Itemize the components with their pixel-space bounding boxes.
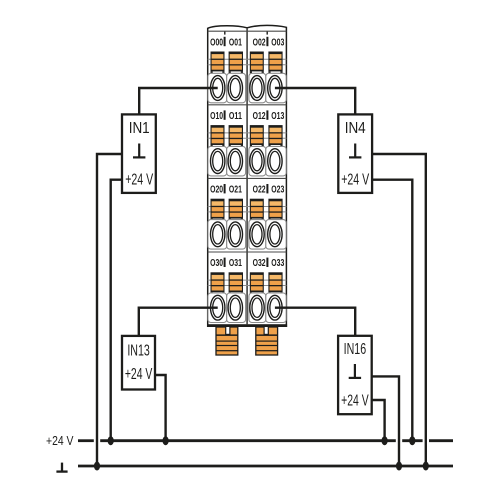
conductor entry cell O23 xyxy=(266,220,286,250)
svg-text:IN16: IN16 xyxy=(344,341,367,358)
spring clamp terminal O22 xyxy=(250,199,264,222)
module wavy top cap xyxy=(208,25,287,34)
wire IN4 signal to terminal O03 xyxy=(275,88,355,114)
wire IN1 ground to 0V bus xyxy=(97,154,122,466)
wire IN16 ground to 0V bus xyxy=(372,376,399,466)
+24V supply bus xyxy=(78,439,453,442)
label separator bar xyxy=(224,184,226,193)
ground symbol in IN16 xyxy=(349,364,361,378)
sensor box IN4 xyxy=(338,114,372,192)
junction dot on +24V bus xyxy=(382,436,388,445)
conductor entry cell O02 xyxy=(249,73,266,103)
spring clamp terminal O30 xyxy=(211,272,225,295)
spring clamp terminal O01 xyxy=(229,52,243,75)
svg-text:O20: O20 xyxy=(210,184,223,196)
svg-text:O32: O32 xyxy=(253,257,266,269)
conductor entry cell O21 xyxy=(227,220,246,250)
conductor entry cell O13 xyxy=(266,146,286,176)
sensor box IN13 xyxy=(122,336,155,390)
wire IN16 signal to terminal O33 xyxy=(275,308,355,336)
spring clamp terminal O20 xyxy=(211,199,225,222)
oval wire opening O10 xyxy=(211,149,225,174)
spring clamp terminal O00 xyxy=(211,52,225,75)
spring clamp terminal O32 xyxy=(250,272,264,295)
oval wire opening O02 xyxy=(250,76,264,101)
svg-text:O33: O33 xyxy=(271,257,284,269)
ground bus symbol xyxy=(56,463,67,472)
spring clamp terminal O10 xyxy=(211,125,225,148)
spring clamp terminal O02 xyxy=(250,52,264,75)
oval wire opening O12 xyxy=(250,149,264,174)
spring clamp terminal O23 xyxy=(268,199,282,222)
conductor entry cell O00 xyxy=(208,73,227,103)
conductor entry cell O10 xyxy=(208,146,227,176)
sensor box IN16 xyxy=(338,336,372,414)
svg-text:O22: O22 xyxy=(253,184,266,196)
oval wire opening O01 xyxy=(228,76,242,101)
conductor entry cell O30 xyxy=(208,293,227,323)
wire IN1 signal to terminal O00 xyxy=(139,88,218,114)
oval wire opening O32 xyxy=(250,295,264,320)
ground symbol in IN4 xyxy=(349,144,361,158)
svg-text:IN13: IN13 xyxy=(127,342,150,359)
spring clamp terminal O13 xyxy=(268,125,282,148)
wire IN13 +24V to 24V bus xyxy=(155,375,166,441)
svg-text:O21: O21 xyxy=(229,184,242,196)
oval wire opening O13 xyxy=(268,149,282,174)
row 3 horizontal guide lines xyxy=(208,207,287,212)
label separator bar xyxy=(266,110,268,119)
wire IN4 +24V to 24V bus xyxy=(372,180,412,441)
svg-text:+24 V: +24 V xyxy=(46,434,74,448)
spring clamp terminal O12 xyxy=(250,125,264,148)
label separator bar xyxy=(266,258,268,267)
oval wire opening O23 xyxy=(268,222,282,247)
oval wire opening O20 xyxy=(211,222,225,247)
conductor entry cell O32 xyxy=(249,293,266,323)
svg-text:O12: O12 xyxy=(253,110,266,122)
conductor entry cell O22 xyxy=(249,220,266,250)
svg-text:O01: O01 xyxy=(229,36,242,48)
junction dot on +24V bus xyxy=(409,436,415,445)
junction dot on 0V bus xyxy=(423,462,429,471)
svg-text:O03: O03 xyxy=(271,36,284,48)
row 1 horizontal guide lines xyxy=(208,59,287,64)
spring clamp terminal O31 xyxy=(229,272,243,295)
row 4 horizontal guide lines xyxy=(208,280,287,285)
conductor entry cell O01 xyxy=(227,73,246,103)
svg-text:O30: O30 xyxy=(210,257,223,269)
conductor entry cell O20 xyxy=(208,220,227,250)
conductor entry cell O12 xyxy=(249,146,266,176)
svg-text:IN1: IN1 xyxy=(129,120,150,137)
junction dot on 0V bus xyxy=(396,462,402,471)
spring clamp terminal O33 xyxy=(268,272,282,295)
label separator bar xyxy=(266,37,268,46)
svg-text:+24 V: +24 V xyxy=(125,366,153,383)
svg-text:+24 V: +24 V xyxy=(341,392,369,409)
conductor entry cell O31 xyxy=(227,293,246,323)
junction dot on +24V bus xyxy=(108,436,114,445)
svg-text:O31: O31 xyxy=(229,257,242,269)
ground symbol in IN1 xyxy=(133,144,145,158)
svg-text:O13: O13 xyxy=(271,110,284,122)
junction dot on 0V bus xyxy=(94,462,100,471)
row 2 horizontal guide lines xyxy=(208,133,287,138)
svg-text:O00: O00 xyxy=(210,36,223,48)
module bottom edge bar xyxy=(207,324,287,327)
wire IN13 signal to terminal O30 xyxy=(139,308,218,336)
label separator bar xyxy=(224,37,226,46)
0V ground bus xyxy=(78,465,453,468)
oval wire opening O33 xyxy=(268,295,282,320)
spring clamp terminal O03 xyxy=(268,52,282,75)
oval wire opening O22 xyxy=(250,222,264,247)
label separator bar xyxy=(224,110,226,119)
svg-text:+24 V: +24 V xyxy=(125,172,153,189)
svg-text:O11: O11 xyxy=(229,110,242,122)
oval wire opening O30 xyxy=(211,295,225,320)
oval wire opening O21 xyxy=(228,222,242,247)
svg-text:IN4: IN4 xyxy=(345,120,366,137)
conductor entry cell O33 xyxy=(266,293,286,323)
oval wire opening O03 xyxy=(268,76,282,101)
label separator bar xyxy=(266,184,268,193)
sensor box IN1 xyxy=(122,114,156,192)
conductor entry cell O11 xyxy=(227,146,246,176)
I/O module terminal block body xyxy=(208,27,287,327)
label separator bar xyxy=(224,258,226,267)
junction dot on +24V bus xyxy=(163,436,169,445)
bottom plug connector foot 2 xyxy=(256,326,278,355)
bottom plug connector foot 1 xyxy=(216,326,238,355)
oval wire opening O00 xyxy=(211,76,225,101)
svg-text:+24 V: +24 V xyxy=(341,172,369,189)
svg-text:O23: O23 xyxy=(271,184,284,196)
svg-text:O10: O10 xyxy=(210,110,223,122)
module group divider lines xyxy=(208,31,287,252)
spring clamp terminal O11 xyxy=(229,125,243,148)
spring clamp terminal O21 xyxy=(229,199,243,222)
conductor entry cell O03 xyxy=(266,73,286,103)
module middle divider xyxy=(246,28,248,324)
svg-text:O02: O02 xyxy=(253,36,266,48)
wire IN1 +24V to 24V bus xyxy=(111,180,122,441)
oval wire opening O31 xyxy=(228,295,242,320)
wire IN4 ground to 0V bus xyxy=(372,154,426,466)
wire IN16 +24V to 24V bus xyxy=(372,400,385,441)
oval wire opening O11 xyxy=(228,149,242,174)
